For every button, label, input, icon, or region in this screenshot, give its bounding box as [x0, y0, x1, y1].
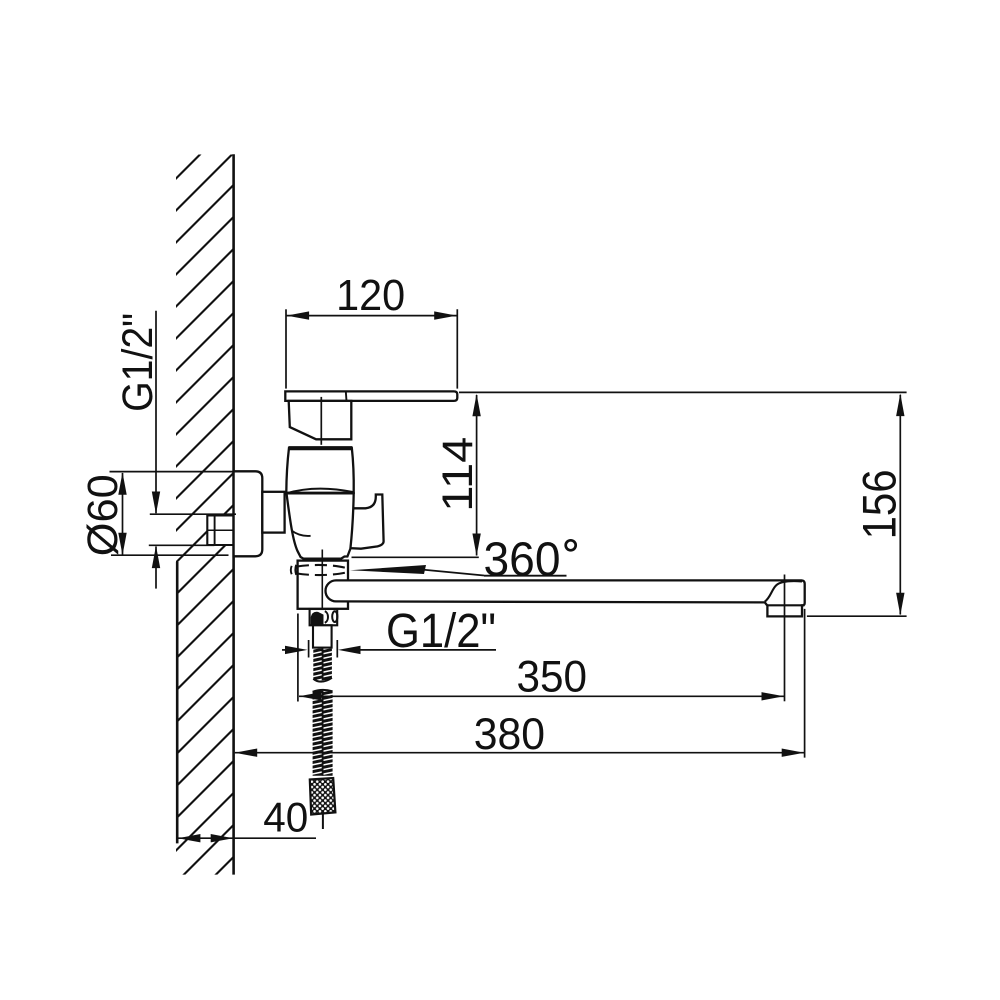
- ring left paren mark: [290, 566, 293, 574]
- supply pipe in wall: [207, 516, 233, 546]
- svg-text:114: 114: [434, 437, 482, 512]
- body-hose centerline: [321, 550, 323, 626]
- hose end nut: [310, 778, 336, 815]
- dim D60 extensions: [110, 471, 234, 473]
- dim 350 arrows: [299, 692, 322, 700]
- svg-text:120: 120: [336, 271, 405, 320]
- handle cap: [289, 401, 352, 439]
- dim G12-left lower line: [155, 547, 157, 589]
- leader curve: [420, 569, 484, 575]
- dim 40 arrows: [178, 834, 201, 842]
- svg-text:Ø60: Ø60: [80, 474, 127, 556]
- mixer body cartridge barrel: [286, 448, 353, 493]
- dim 380 line: [235, 752, 805, 754]
- hose break caps: [312, 677, 333, 689]
- svg-text:350: 350: [517, 652, 588, 701]
- dim 114 line: [476, 395, 478, 556]
- swivel block: [298, 561, 348, 609]
- hose nut: [313, 625, 332, 647]
- svg-text:380: 380: [474, 710, 545, 759]
- wall face edge: [232, 154, 235, 874]
- dim G12-hose extensions: [308, 640, 310, 658]
- dim G12-left arrows: [152, 492, 160, 515]
- dim 120 arrows: [287, 311, 310, 319]
- mixer body lower cone: [287, 493, 354, 558]
- dim 120 line: [286, 315, 457, 317]
- spout tube: [326, 580, 805, 616]
- dim 156 line: [899, 395, 901, 615]
- dim 350 extensions: [297, 614, 299, 702]
- wall back edge: [176, 562, 179, 843]
- dim 120 extension lines: [285, 309, 287, 388]
- spout end detail curve: [765, 581, 802, 602]
- dim 40 line: [177, 837, 316, 839]
- dim G12-left extensions: [150, 513, 236, 515]
- dim G12-left upper line: [155, 311, 157, 513]
- label 360 underline: [484, 575, 567, 577]
- dim D60 arrows: [118, 472, 126, 495]
- dim 114 arrows: [472, 394, 480, 417]
- dim 114 bottom extension: [352, 556, 479, 558]
- dim 156 bottom extension: [807, 615, 907, 617]
- wall connector stub: [262, 492, 284, 533]
- pipe centerline: [207, 529, 256, 531]
- dim 350 line: [299, 695, 785, 697]
- dim G12-hose left line: [282, 649, 288, 651]
- cartridge centerline: [320, 397, 322, 445]
- body highlight curve: [292, 531, 311, 536]
- svg-text:360: 360: [484, 533, 561, 586]
- svg-text:G1/2": G1/2": [115, 313, 162, 412]
- hose end stem: [322, 814, 324, 829]
- swivel joint dashed ring: [294, 565, 297, 575]
- dim D60 line: [122, 473, 124, 555]
- diverter knob: [350, 495, 384, 549]
- svg-text:40: 40: [263, 794, 308, 841]
- svg-text:G1/2": G1/2": [386, 605, 496, 658]
- leader arrow: [350, 565, 426, 574]
- dim G12-hose arrows: [285, 646, 308, 654]
- top extension line: [459, 391, 907, 393]
- svg-text:156: 156: [853, 469, 906, 539]
- lever handle plate: [285, 391, 457, 401]
- dim 380 right extension: [804, 609, 806, 758]
- escutcheon flange on wall: [234, 471, 263, 556]
- handle joint line: [345, 391, 348, 401]
- hose swivel nipple: [310, 609, 338, 625]
- dim 156 arrows: [896, 394, 904, 417]
- dim G12-hose right line: [360, 649, 497, 651]
- dim 380 arrows: [235, 749, 258, 757]
- body shoulder arc: [286, 489, 353, 494]
